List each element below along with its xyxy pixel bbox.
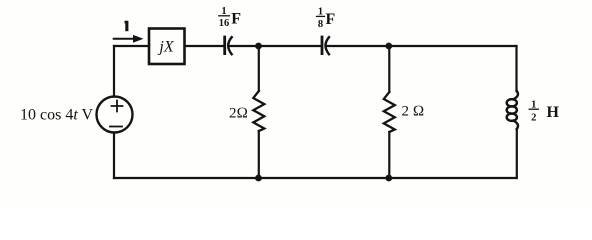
label 2 ohm R1: [229, 106, 248, 122]
voltage source VS: [97, 97, 133, 133]
node dot A top: [255, 43, 262, 50]
node dot B bottom: [385, 175, 392, 182]
wire top-left horizontal to box: [114, 45, 149, 47]
label 10 cos 4t V: [20, 107, 93, 124]
svg-text:F: F: [231, 10, 241, 27]
wire right vertical down to inductor: [515, 46, 517, 91]
wire right vertical from inductor to bottom-right corner: [516, 129, 518, 178]
svg-text:8: 8: [318, 19, 323, 30]
svg-text:jX: jX: [157, 39, 174, 56]
svg-text:F: F: [326, 11, 336, 28]
svg-text:10 cos 4t V: 10 cos 4t V: [20, 107, 93, 124]
node dot A bottom: [255, 175, 262, 182]
current arrow I: [114, 35, 144, 43]
resistor R2: [384, 46, 395, 178]
capacitor C2: [322, 37, 329, 54]
wire capacitor C1 to capacitor C2: [230, 45, 322, 47]
resistor R1: [253, 46, 264, 178]
wire capacitor C2 to top-right corner: [327, 45, 517, 47]
label 2 ohm R2: [402, 104, 425, 120]
capacitor C1: [225, 37, 232, 54]
svg-text:16: 16: [219, 18, 230, 29]
label 1/2 H: [529, 99, 559, 123]
svg-text:H: H: [547, 104, 560, 121]
wire left vertical from source bottom to bottom-left corner: [113, 133, 115, 178]
label 1/8 F: [317, 7, 336, 30]
node dot B top: [385, 43, 392, 50]
impedance box U1 jX: [149, 29, 185, 65]
svg-text:2: 2: [531, 113, 536, 124]
svg-text:2 Ω: 2 Ω: [402, 104, 425, 120]
inductor L1: [507, 91, 518, 129]
label I: [125, 21, 129, 31]
wire left vertical from source top to top-left corner: [113, 46, 115, 97]
label 1/16 F: [219, 6, 242, 29]
svg-text:2Ω: 2Ω: [229, 106, 248, 122]
wire bottom: [114, 177, 517, 179]
wire box to capacitor C1: [185, 45, 224, 47]
